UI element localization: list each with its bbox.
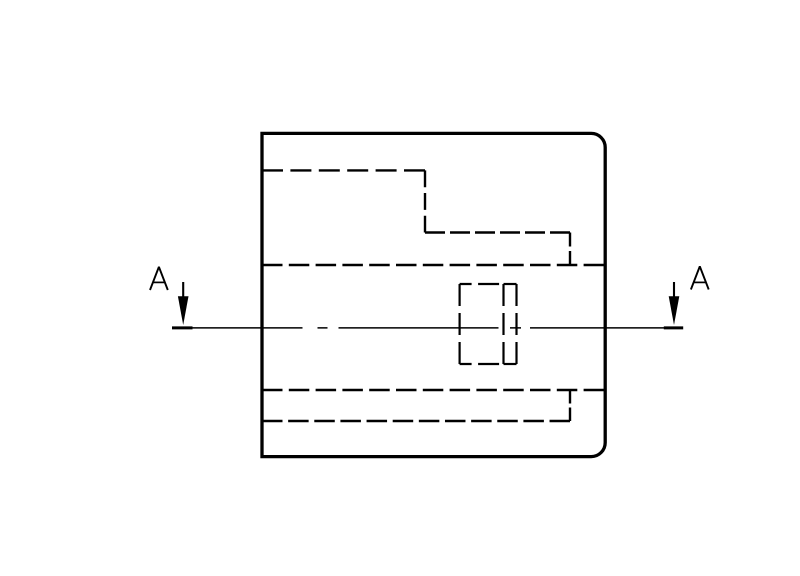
hidden narrow cavity top [504, 283, 517, 285]
hidden slot rectangle (left cavity) left side [459, 284, 461, 364]
part outline (sharp left corners, rounded right corners) [262, 133, 605, 456]
hidden line: upper bore full-width [262, 264, 604, 266]
hidden slot rectangle (left cavity) top [460, 283, 504, 285]
hidden line: upper bore step, middle horizontal [425, 231, 570, 233]
label A left [150, 267, 168, 290]
section cutting plane centerline A-A [193, 327, 684, 329]
left section arrowhead [178, 296, 189, 325]
label A right [691, 266, 709, 289]
thick section end bar left [172, 326, 193, 329]
hidden line: lower bore step, horizontal [262, 420, 570, 422]
left section arrow stem [182, 282, 184, 300]
right section arrowhead [669, 296, 680, 325]
hidden line: lower bore step, vertical at x=570 [569, 390, 571, 421]
hidden narrow cavity right side [515, 284, 517, 364]
hidden line: upper bore step, vertical drop at x=570 [569, 233, 571, 266]
hidden line: upper bore step, vertical drop at x=425 [424, 170, 426, 232]
hidden narrow cavity bottom [504, 363, 517, 365]
hidden line: lower bore full-width [262, 389, 604, 391]
hidden line: upper bore step, left horizontal [262, 169, 425, 171]
thick section end bar right [664, 326, 683, 329]
hidden slot rectangle (left cavity) bottom [460, 363, 504, 365]
right section arrow stem [673, 282, 675, 300]
hidden slot divider vertical [502, 284, 504, 364]
